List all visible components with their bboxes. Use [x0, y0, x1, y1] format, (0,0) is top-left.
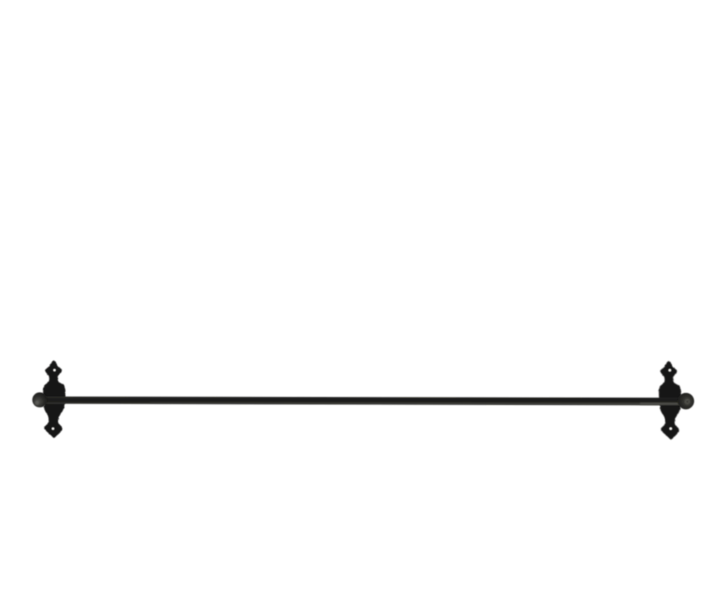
- right plate top screw hole: [668, 369, 671, 372]
- right plate bottom screw hole: [669, 427, 672, 430]
- left bracket plate: [43, 360, 65, 438]
- left ball highlight: [35, 401, 39, 405]
- bar: [40, 397, 686, 406]
- right bracket plate: [658, 360, 683, 439]
- right ball finial: [678, 393, 695, 410]
- bar lower sheen mid: [150, 402, 660, 404]
- left plate top screw hole: [53, 369, 56, 372]
- bar lower sheen right end: [640, 403, 681, 405]
- left ball finial: [32, 392, 47, 407]
- left plate bottom screw hole: [52, 427, 55, 430]
- right ball reflection: [685, 399, 690, 404]
